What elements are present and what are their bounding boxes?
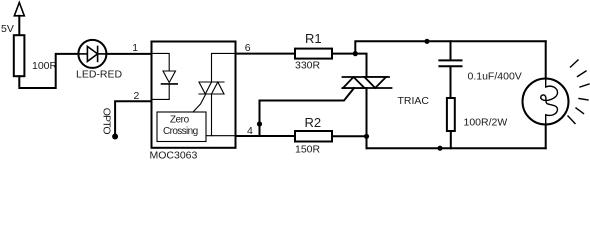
lamp top wire — [545, 41, 547, 78]
svg-text:1: 1 — [132, 42, 138, 54]
svg-text:0.1uF/400V: 0.1uF/400V — [468, 71, 522, 83]
wire R2 to MT1 junction — [332, 135, 367, 137]
lamp bottom wire — [545, 125, 547, 149]
gate wire — [260, 88, 355, 136]
wire triac MT1 to bottom rail — [366, 88, 368, 148]
resistor 100R — [14, 35, 58, 76]
lamp LP1 — [523, 79, 569, 125]
triac Q1 — [343, 77, 392, 88]
junction dot pin4 line — [364, 134, 369, 139]
wire LED to pin 1 — [106, 53, 151, 55]
svg-text:OPTO: OPTO — [101, 108, 113, 135]
optocoupler U1 MOC3063 body — [152, 42, 236, 148]
top rail wire — [355, 41, 545, 53]
svg-text:MOC3063: MOC3063 — [150, 150, 198, 162]
svg-text:330R: 330R — [295, 59, 321, 71]
pin 6 wire — [236, 53, 296, 55]
zero crossing block — [157, 94, 206, 142]
svg-text:2: 2 — [134, 90, 140, 102]
svg-text:R1: R1 — [305, 31, 322, 46]
LED LED-RED — [76, 40, 123, 81]
wire R1 to triac MT2 — [332, 54, 367, 77]
internal LED of U1 — [152, 53, 178, 99]
wire 5V to R 100R — [18, 16, 20, 35]
svg-text:TRIAC: TRIAC — [398, 95, 430, 107]
svg-text:100R: 100R — [32, 60, 58, 72]
wire 100R to LED — [19, 54, 78, 88]
resistor R1 — [295, 31, 332, 71]
internal photo-triac of U1 — [199, 53, 236, 135]
lamp rays — [568, 60, 589, 124]
junction dot R1/rail — [353, 51, 358, 56]
svg-text:LED-RED: LED-RED — [76, 69, 123, 81]
pin 2 wire — [115, 101, 151, 136]
node OPTO terminal — [101, 108, 118, 140]
svg-text:Zero: Zero — [170, 115, 190, 126]
power 5V supply — [1, 3, 24, 36]
svg-text:4: 4 — [247, 125, 253, 137]
svg-text:Crossing: Crossing — [163, 126, 198, 137]
svg-text:R2: R2 — [305, 115, 322, 130]
bottom rail wire — [367, 147, 546, 149]
svg-text:6: 6 — [245, 42, 251, 54]
pin 4 wire — [236, 135, 296, 137]
svg-text:150R: 150R — [295, 143, 321, 155]
junction dot on top rail — [424, 39, 429, 44]
svg-text:5V: 5V — [1, 23, 14, 35]
junction dot on gate wire — [257, 121, 262, 126]
junction dot on bottom rail — [437, 146, 442, 151]
resistor 100R/2W — [447, 98, 507, 148]
capacitor C1 — [439, 41, 521, 98]
resistor R2 — [295, 115, 332, 155]
svg-text:100R/2W: 100R/2W — [464, 117, 508, 129]
